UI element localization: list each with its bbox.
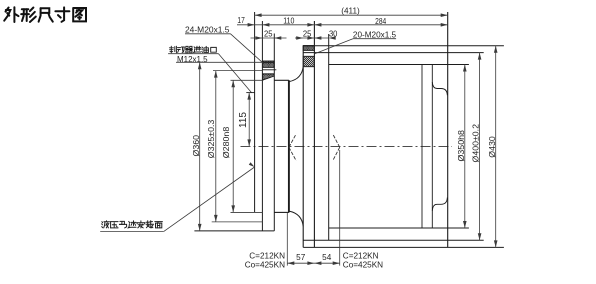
dim O430 [495, 46, 497, 248]
hatch: right flange section below hole (crosshatch) [303, 56, 314, 66]
wire shaft edge thick x=288.9 [288, 80, 290, 212]
title 外形尺寸图 [6, 8, 9, 12]
wire fillet neck to flange root (bottom) [290, 211, 304, 226]
centerline axis [241, 145, 453, 147]
wire O360 top extension line (M12 label underline) [176, 61, 262, 63]
wire O430 flange top edge + ext to O430 dim [303, 45, 504, 47]
label 制动器进油口 (brake oil inlet) [170, 46, 172, 53]
wire inner bore step x=432.3 [431, 65, 433, 229]
wire O325 top extension line [213, 70, 262, 72]
hatch: right flange M20 thread strip [303, 46, 314, 51]
svg-text:C=212KN: C=212KN [343, 251, 379, 260]
wire flange right face x=274.3 [273, 34, 275, 231]
svg-text:110: 110 [283, 17, 295, 26]
wire M20 hole bottom line (left) [262, 69, 276, 71]
bearing B2 contact-angle mark [333, 134, 340, 148]
wire O325 bottom extension line [212, 221, 263, 223]
dim O400±0.2 [479, 53, 481, 241]
svg-text:Ø350h8: Ø350h8 [457, 130, 466, 162]
wire bore mouth fillet top [432, 82, 447, 95]
label 液压马达安装面 (hydraulic motor mounting surface) with leader [101, 222, 104, 223]
wire O400 spigot top edge + ext [303, 52, 484, 54]
dim 25 / 30 (O430 flange + O400 spigot) [295, 37, 329, 39]
wire O400 spigot bottom edge + ext [303, 239, 484, 241]
dim O360 [199, 62, 201, 231]
svg-text:24-M20x1.5: 24-M20x1.5 [185, 26, 230, 35]
svg-text:C=212KN: C=212KN [249, 251, 285, 260]
wire O280 boss/neck top edge y=80.3 [231, 79, 263, 81]
dim O350h8 [464, 65, 466, 229]
svg-text:Ø280n8: Ø280n8 [222, 126, 231, 158]
dim 25 (left flange thickness) [251, 37, 287, 39]
svg-text:57: 57 [296, 253, 306, 262]
dim O325±0.3 [215, 71, 217, 222]
wire flange face x=262.4 (ext for 110/17/25 dims) [261, 21, 263, 231]
wire body right face x=447.7 (ext up for 411/284) [447, 12, 449, 247]
dim 57 / 54 bearing positions [286, 213, 288, 266]
wire fillet neck to flange root (top) [290, 67, 304, 82]
wire O430 flange left face x=303.2 [302, 46, 304, 248]
dim O280n8 [232, 80, 234, 212]
bearing B1 contact-angle mark [289, 134, 296, 148]
svg-text:54: 54 [322, 253, 332, 262]
svg-text:Co=425KN: Co=425KN [343, 260, 383, 269]
dim 115 (port radial position) [248, 93, 250, 147]
wire O350 body top edge + ext [329, 64, 469, 66]
wire O430 flange bottom edge + ext [303, 246, 504, 248]
dim 17 / 110 / 284 chain [237, 24, 448, 26]
wire M12 port edge tick [246, 92, 254, 94]
wire bore mouth fillet bottom [432, 198, 447, 211]
svg-text:Ø325±0.3: Ø325±0.3 [207, 119, 216, 158]
wire O360 flange top edge [262, 61, 274, 63]
svg-text:Ø400±0.2: Ø400±0.2 [472, 124, 481, 163]
dim (411) overall length [255, 14, 448, 16]
svg-text:284: 284 [375, 17, 386, 26]
wire O360 flange bottom edge + extension [194, 230, 274, 232]
svg-text:Ø430: Ø430 [488, 136, 497, 158]
svg-text:20-M20x1.5: 20-M20x1.5 [353, 31, 397, 40]
svg-text:(411): (411) [341, 7, 360, 16]
svg-text:17: 17 [237, 16, 245, 25]
svg-text:M12x1.5: M12x1.5 [177, 55, 208, 64]
svg-text:25: 25 [264, 29, 273, 38]
svg-text:25: 25 [303, 29, 312, 38]
wire O430 flange right face x=314.4 (ext to dims above) [313, 21, 315, 247]
wire motor mounting face x=254.6 (also ext line for 411/17 dims) [254, 12, 256, 212]
wire O400/O350 step face x=328.7 [328, 34, 330, 240]
wire O350 body bottom edge + ext [329, 227, 469, 229]
svg-text:30: 30 [329, 29, 338, 38]
svg-text:Co=425KN: Co=425KN [245, 260, 285, 269]
svg-text:Ø360: Ø360 [192, 135, 201, 157]
svg-text:115: 115 [238, 111, 249, 128]
wire inner bore edge x=422 [421, 65, 423, 229]
hatch: left flange M20 thread strip upper [262, 61, 274, 67]
wire O280 boss/neck bottom edge y=212.4 [231, 211, 263, 213]
